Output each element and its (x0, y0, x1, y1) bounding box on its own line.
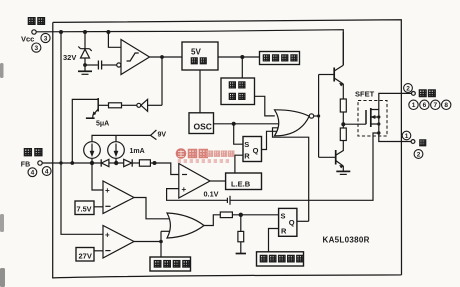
svg-text:2: 2 (406, 85, 410, 92)
svg-text:2: 2 (417, 151, 421, 158)
svg-text:3: 3 (44, 35, 48, 42)
svg-text:1: 1 (412, 102, 416, 109)
svg-text:1: 1 (405, 133, 409, 140)
svg-text:R: R (281, 227, 287, 236)
svg-text:32V: 32V (63, 53, 76, 62)
svg-text:KA5L0380R: KA5L0380R (323, 236, 370, 245)
svg-text:SFET: SFET (355, 90, 375, 99)
svg-text:27V: 27V (79, 252, 92, 261)
svg-text:3: 3 (34, 45, 38, 52)
svg-text:7: 7 (433, 102, 437, 109)
svg-text:0.1V: 0.1V (204, 190, 219, 199)
svg-text:4: 4 (45, 168, 49, 175)
svg-text:1mA: 1mA (130, 148, 145, 155)
svg-text:6: 6 (423, 102, 427, 109)
svg-text:5V: 5V (191, 48, 201, 57)
svg-text:Vcc: Vcc (21, 35, 34, 44)
svg-text:S: S (281, 212, 286, 221)
svg-text:OSC: OSC (194, 122, 212, 132)
svg-text:+: + (105, 231, 110, 240)
svg-text:S: S (244, 140, 249, 149)
svg-text:4: 4 (31, 170, 35, 177)
svg-text:FB: FB (21, 162, 30, 169)
svg-text:+: + (105, 186, 110, 195)
svg-text:7.5V: 7.5V (77, 205, 92, 214)
svg-text:8: 8 (444, 102, 448, 109)
svg-text:+: + (182, 185, 187, 194)
svg-text:L.E.B: L.E.B (231, 180, 251, 189)
svg-text:R: R (244, 152, 250, 161)
svg-text:5μA: 5μA (96, 121, 109, 128)
svg-text:9V: 9V (158, 132, 167, 139)
svg-text:Q: Q (289, 218, 295, 227)
svg-text:Q: Q (253, 146, 259, 155)
